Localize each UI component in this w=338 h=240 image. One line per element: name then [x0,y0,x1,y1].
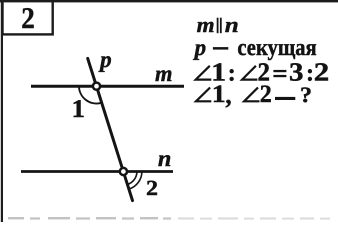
left border of table cell [1,0,3,222]
svg-text:m: m [155,61,173,86]
svg-text:n: n [225,13,239,37]
em dash [213,47,228,50]
task number box [3,1,53,34]
wire: line n [21,170,173,173]
angle sign [244,88,259,102]
angle sign [196,66,212,80]
svg-text:m: m [197,13,215,37]
svg-text:,: , [225,83,231,110]
svg-text:n: n [158,146,172,171]
em dash [275,97,295,100]
angle 2 arcs (double) [128,172,137,185]
svg-text:1: 1 [212,81,226,108]
equals sign [273,70,286,72]
svg-text:p: p [193,35,207,60]
svg-text:p: p [98,47,112,72]
svg-text:секущая: секущая [237,35,317,61]
wire: line m [31,85,184,88]
wire: transversal p [88,58,133,200]
svg-text:2: 2 [260,81,272,108]
parallel sign [217,18,219,34]
angle sign [242,66,257,80]
svg-text:2: 2 [146,176,158,200]
angle 1 arc [79,86,102,103]
node: intersection of p and n [120,168,127,175]
svg-text:1: 1 [72,94,86,123]
node: intersection of p and m [93,83,100,90]
faint scan artifacts: dashed gray line near bottom [8,217,171,220]
top border of table cell [0,0,338,2]
angle sign [196,88,211,102]
svg-text:2: 2 [21,2,35,35]
svg-text:?: ? [300,82,312,107]
svg-text:2: 2 [314,58,330,87]
